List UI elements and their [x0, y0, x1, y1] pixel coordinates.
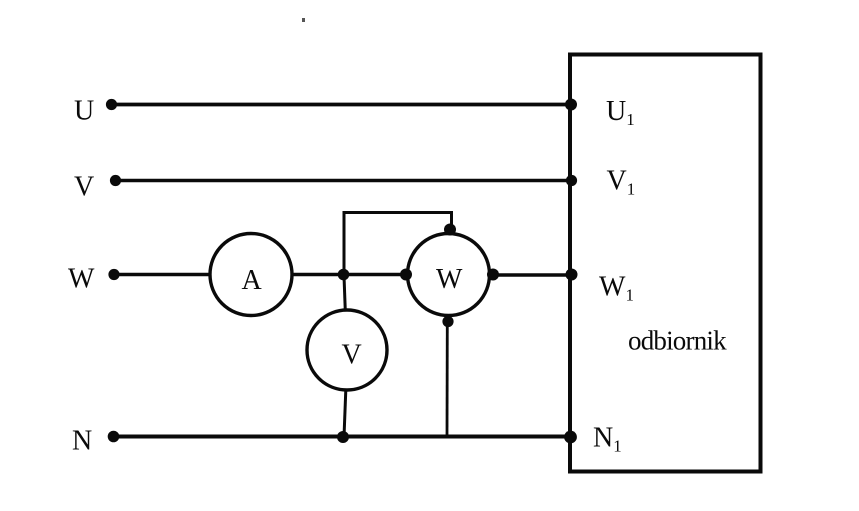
- svg-text:N1: N1: [593, 423, 622, 456]
- svg-text:W1: W1: [599, 272, 634, 305]
- terminal U: [106, 99, 117, 110]
- terminal W: [108, 269, 119, 280]
- load box odbiornik: [570, 55, 761, 472]
- wattmeter right current terminal: [487, 269, 499, 281]
- wire W line segment ammeter to wattmeter: [292, 273, 407, 277]
- wire U line: [113, 103, 571, 107]
- terminal V: [110, 175, 121, 186]
- wattmeter bottom voltage terminal: [442, 316, 453, 327]
- ammeter A: [210, 234, 292, 316]
- junction node on W line (wattmeter voltage tap): [338, 269, 350, 281]
- wire wattmeter voltage coil top loop: [344, 213, 452, 274]
- svg-text:V: V: [74, 172, 94, 203]
- node N1 on load box: [564, 431, 577, 444]
- wire voltmeter down to N line: [344, 390, 346, 437]
- wattmeter left current terminal: [400, 269, 412, 281]
- svg-text:U: U: [74, 96, 94, 127]
- wire N line: [113, 435, 571, 439]
- svg-text:V1: V1: [607, 166, 636, 199]
- voltmeter V: [307, 310, 387, 390]
- svg-text:A: A: [242, 265, 263, 296]
- svg-text:N: N: [72, 426, 92, 457]
- wire junction down to voltmeter: [344, 276, 345, 311]
- wattmeter W: [408, 234, 490, 316]
- node W1 on load box: [566, 269, 578, 281]
- svg-text:V: V: [342, 340, 362, 371]
- node U1 on load box: [565, 99, 577, 111]
- node V1 on load box: [566, 175, 577, 186]
- wire V line: [116, 179, 571, 183]
- svg-text:W: W: [68, 264, 95, 295]
- wire wattmeter to load box: [493, 273, 571, 277]
- junction node on N line (voltmeter return): [337, 431, 349, 443]
- svg-text:W: W: [436, 264, 463, 295]
- wire W line segment terminal to ammeter: [114, 273, 211, 277]
- svg-text:odbiornik: odbiornik: [628, 326, 727, 356]
- svg-text:U1: U1: [606, 96, 635, 129]
- wire wattmeter bottom terminal down to N line: [446, 323, 449, 437]
- scan speck artifact: [302, 18, 305, 22]
- terminal N: [108, 431, 120, 443]
- wattmeter top voltage terminal: [444, 224, 456, 236]
